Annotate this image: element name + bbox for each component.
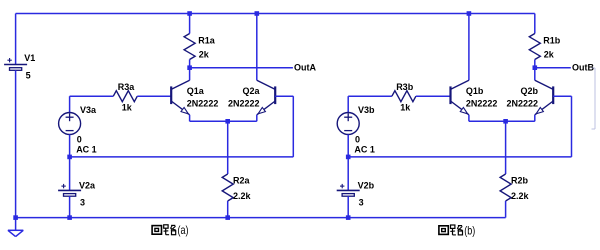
Q1b label: [466, 86, 484, 96]
node Q2a collector junction: [255, 11, 260, 16]
node V2b bottom junction: [346, 215, 351, 220]
R1a value 2k: [199, 49, 210, 59]
node R2a bottom junction: [225, 215, 230, 220]
wire R2a bottom lead: [227, 201, 229, 218]
resistor R1a: [184, 34, 195, 60]
wire V2a top lead: [69, 157, 71, 191]
resistor R2a: [222, 174, 233, 201]
wire V3a top lead: [70, 96, 114, 112]
node R1a top junction: [187, 11, 192, 16]
wire V3b top lead: [348, 96, 392, 112]
wire Q2a collector riser: [256, 14, 258, 81]
svg-text:V3a: V3a: [80, 105, 97, 115]
battery V2a: [58, 184, 81, 196]
wire Q1a collector: [189, 68, 191, 81]
Q2a label: [242, 86, 260, 96]
node Q1b collector junction: [467, 11, 472, 16]
V3a value AC 1: [76, 145, 97, 155]
svg-text:V2b: V2b: [358, 180, 375, 190]
transistor Q1a: [171, 80, 189, 121]
R3a label: [118, 82, 136, 92]
wire R3a to Q1a base: [137, 95, 171, 97]
resistor R3a: [113, 91, 137, 102]
node ground junction: [13, 215, 18, 220]
V3a value 0: [77, 134, 82, 144]
resistor R2b: [500, 174, 511, 201]
svg-text:R2b: R2b: [511, 176, 529, 186]
svg-text:1k: 1k: [400, 103, 411, 113]
R1b label: [543, 36, 561, 46]
wire bottom ground rail: [16, 217, 506, 219]
node emitter junction a: [225, 119, 230, 124]
R3a value 1k: [122, 103, 133, 113]
R2b label: [511, 176, 529, 186]
svg-text:5: 5: [26, 71, 31, 81]
svg-text:0: 0: [77, 134, 82, 144]
svg-text:2k: 2k: [199, 49, 210, 59]
battery V2b: [337, 184, 360, 196]
battery V1: [4, 58, 27, 70]
wire V2b top lead: [347, 157, 349, 191]
wire OutA: [190, 67, 293, 69]
svg-text:Q1a: Q1a: [187, 86, 205, 96]
svg-text:0: 0: [355, 134, 360, 144]
node OutB label: [572, 63, 594, 73]
transistor Q2b: [535, 80, 553, 121]
Q2a value 2N2222: [228, 99, 260, 109]
transistor Q1b: [451, 80, 469, 121]
wire emitter rail b: [469, 120, 535, 122]
V2a label: [79, 180, 96, 190]
Q1a value 2N2222: [187, 99, 219, 109]
svg-text:OutA: OutA: [294, 63, 316, 73]
svg-text:2k: 2k: [544, 49, 555, 59]
wire R2b top lead: [505, 121, 507, 174]
V3a label: [80, 105, 97, 115]
node OutA label: [294, 63, 316, 73]
wire OutB: [535, 67, 571, 69]
wire top supply rail: [16, 13, 535, 15]
V2b value 3: [359, 197, 364, 207]
window edge artifact: [592, 68, 596, 129]
ground: [8, 230, 23, 236]
wire Q2b collector: [534, 68, 536, 81]
svg-text:2N2222: 2N2222: [228, 99, 260, 109]
R2a value 2.2k: [233, 191, 252, 201]
svg-text:R3a: R3a: [118, 82, 136, 92]
svg-text:R2a: R2a: [233, 176, 251, 186]
svg-text:R3b: R3b: [396, 82, 414, 92]
R1a label: [198, 36, 216, 46]
svg-text:3: 3: [359, 197, 364, 207]
node OutA junction: [187, 65, 192, 70]
wire R1b top lead: [534, 14, 536, 34]
wire ground stub: [15, 218, 17, 231]
svg-text:V1: V1: [24, 53, 35, 63]
wire R2b bottom lead: [505, 201, 507, 218]
resistor R3b: [392, 91, 416, 102]
svg-text:1k: 1k: [122, 103, 133, 113]
svg-text:AC 1: AC 1: [76, 145, 97, 155]
svg-text:2.2k: 2.2k: [511, 191, 530, 201]
wire Q2a base: [70, 96, 294, 157]
wire Q2b base: [348, 96, 571, 157]
transistor Q2a: [257, 80, 275, 121]
V2b label: [358, 180, 375, 190]
node emitter junction b: [503, 119, 508, 124]
svg-text:2N2222: 2N2222: [187, 99, 219, 109]
svg-text:R1b: R1b: [543, 36, 561, 46]
R2a label: [233, 176, 251, 186]
wire emitter rail a: [190, 120, 257, 122]
wire V2b bottom lead: [347, 196, 349, 217]
svg-text:Q2b: Q2b: [520, 86, 538, 96]
R3b value 1k: [400, 103, 411, 113]
voltage source V3a: [59, 113, 81, 135]
svg-text:R1a: R1a: [198, 36, 216, 46]
svg-text:Q1b: Q1b: [466, 86, 484, 96]
svg-text:V3b: V3b: [358, 105, 375, 115]
wire V2a bottom lead: [69, 196, 71, 217]
wire R3b to Q1b base: [416, 95, 451, 97]
V2a value 3: [80, 197, 85, 207]
svg-text:V2a: V2a: [79, 180, 96, 190]
R3b label: [396, 82, 414, 92]
svg-text:(a): (a): [178, 223, 189, 237]
Q1a label: [187, 86, 205, 96]
svg-text:AC 1: AC 1: [354, 145, 375, 155]
wire V3b bottom lead: [347, 135, 349, 157]
node OutB junction: [533, 65, 538, 70]
node V2a bottom junction: [67, 215, 72, 220]
caption circuit b: [439, 223, 475, 237]
svg-text:2.2k: 2.2k: [233, 191, 252, 201]
caption circuit a: [152, 223, 188, 237]
wire V1 bottom lead: [15, 70, 17, 217]
V3b value 0: [355, 134, 360, 144]
svg-text:(b): (b): [464, 223, 475, 237]
wire Q1b collector riser: [468, 14, 470, 81]
V1 label: [24, 53, 35, 63]
Q2b label: [520, 86, 538, 96]
resistor R1b: [529, 34, 540, 60]
R1b value 2k: [544, 49, 555, 59]
V1 value 5: [26, 71, 31, 81]
wire R1b bottom lead: [534, 60, 536, 68]
node V3a-V2a junction: [67, 155, 72, 160]
wire V1 top lead: [15, 14, 17, 65]
svg-text:2N2222: 2N2222: [466, 99, 498, 109]
R2b value 2.2k: [511, 191, 530, 201]
wire V3a bottom lead: [69, 135, 71, 157]
V3b value AC 1: [354, 145, 375, 155]
svg-text:3: 3: [80, 197, 85, 207]
svg-text:OutB: OutB: [572, 63, 594, 73]
svg-text:2N2222: 2N2222: [506, 99, 538, 109]
node V3b-V2b junction: [346, 155, 351, 160]
voltage source V3b: [337, 113, 359, 135]
Q2b value 2N2222: [506, 99, 538, 109]
wire R2a top lead: [227, 121, 229, 174]
Q1b value 2N2222: [466, 99, 498, 109]
svg-text:Q2a: Q2a: [242, 86, 260, 96]
V3b label: [358, 105, 375, 115]
wire R1a top lead: [189, 14, 191, 34]
wire R1a bottom lead: [189, 60, 191, 68]
